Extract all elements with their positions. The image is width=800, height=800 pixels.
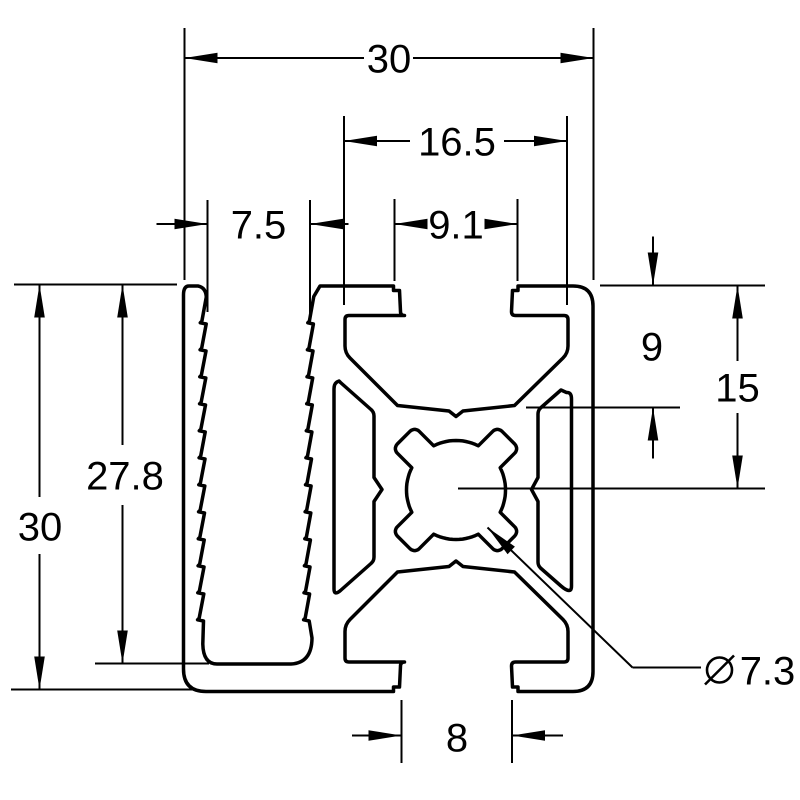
- svg-text:9.1: 9.1: [428, 203, 484, 247]
- svg-text:9: 9: [641, 325, 663, 369]
- svg-text:8: 8: [446, 716, 468, 760]
- svg-text:15: 15: [715, 366, 760, 410]
- svg-text:16.5: 16.5: [418, 120, 496, 164]
- svg-text:7.3: 7.3: [740, 649, 796, 693]
- svg-text:30: 30: [367, 37, 412, 81]
- svg-text:27.8: 27.8: [86, 454, 164, 498]
- svg-text:7.5: 7.5: [231, 203, 287, 247]
- svg-text:30: 30: [18, 505, 63, 549]
